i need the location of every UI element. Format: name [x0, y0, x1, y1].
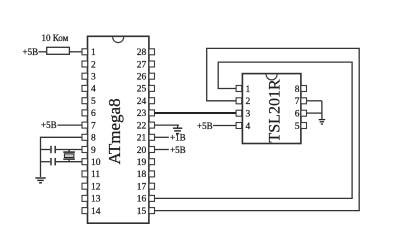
U1 pin 28	[137, 48, 155, 58]
U2 pin 3	[236, 110, 250, 120]
svg-text:28: 28	[137, 48, 147, 58]
wire outer loop bottom to U1 pin 15	[155, 210, 360, 212]
svg-text:2: 2	[91, 60, 96, 70]
U2 pin 4	[236, 122, 250, 132]
wire U1 pin 21 to +1V	[155, 136, 169, 138]
U1 pin 17	[137, 183, 155, 193]
wire U1 pin 9 row	[41, 149, 51, 151]
ground	[319, 120, 326, 124]
U1 pin 1	[82, 48, 96, 58]
wire U1 pin 8 to ground bus	[41, 136, 83, 138]
svg-text:14: 14	[91, 207, 101, 217]
U1 pin 7	[82, 121, 96, 131]
IC U1 ATmega8 body	[88, 36, 149, 223]
wire +5V to U1 pin 7	[58, 124, 83, 126]
wire inner loop bottom to U1 pin 16	[155, 197, 353, 199]
wire ground bus vertical	[40, 137, 42, 177]
wire U2 pin 1 stub	[218, 88, 236, 90]
U1 pin 21	[137, 134, 155, 144]
U2 pin 8	[295, 85, 307, 95]
resistor R1	[47, 47, 70, 54]
U1 pin 11	[82, 170, 100, 180]
U1 pin 20	[137, 146, 155, 156]
U1 pin 23	[137, 109, 155, 119]
ground	[35, 178, 45, 183]
U2 pin 7	[295, 97, 307, 107]
svg-text:24: 24	[137, 97, 147, 107]
svg-text:3: 3	[91, 73, 96, 83]
svg-text:3: 3	[246, 110, 251, 120]
svg-text:19: 19	[137, 158, 147, 168]
svg-text:5: 5	[91, 97, 96, 107]
svg-text:22: 22	[137, 121, 147, 131]
svg-text:11: 11	[91, 170, 100, 180]
svg-text:4: 4	[246, 122, 251, 132]
U1 pin 10	[82, 158, 101, 168]
U1 pin 13	[82, 195, 101, 205]
capacitor C1	[51, 146, 55, 153]
svg-text:7: 7	[91, 121, 96, 131]
svg-text:1: 1	[246, 85, 251, 95]
svg-text:+5В: +5В	[197, 121, 213, 131]
U1 pin 8	[82, 134, 96, 144]
wire U2 pin 7 to ground	[307, 100, 322, 102]
U2 pin 5	[295, 122, 307, 132]
svg-text:6: 6	[91, 109, 96, 119]
svg-text:25: 25	[137, 85, 147, 95]
U1 pin 26	[137, 73, 155, 83]
svg-text:+5В: +5В	[170, 145, 186, 155]
U1 pin 15	[137, 207, 155, 217]
wire inner loop vertical right	[351, 62, 353, 198]
svg-text:1: 1	[91, 48, 96, 58]
svg-text:2: 2	[246, 97, 251, 107]
wire inner loop top	[218, 61, 353, 63]
U1 pin 25	[137, 85, 155, 95]
svg-text:6: 6	[295, 110, 300, 120]
svg-text:27: 27	[137, 60, 147, 70]
svg-text:16: 16	[137, 195, 147, 205]
svg-text:20: 20	[137, 146, 147, 156]
svg-text:ATmega8: ATmega8	[105, 98, 124, 164]
svg-text:+5В: +5В	[41, 120, 57, 130]
U1 pin 9	[82, 146, 96, 156]
U1 pin 2	[82, 60, 96, 70]
svg-text:18: 18	[137, 170, 147, 180]
ground	[173, 128, 182, 133]
U2 pin 6	[295, 110, 307, 120]
svg-text:13: 13	[91, 195, 101, 205]
svg-text:23: 23	[137, 109, 147, 119]
svg-text:17: 17	[137, 183, 147, 193]
capacitor C2	[51, 158, 55, 165]
wire U2 pin 6 to ground	[307, 112, 322, 114]
U1 pin 3	[82, 73, 96, 83]
wire U1 pin 23 to U2 pin 3 (thick)	[155, 112, 237, 114]
wire outer loop top	[206, 47, 360, 49]
U2 pin 2	[236, 97, 250, 107]
svg-text:12: 12	[91, 183, 101, 193]
svg-text:8: 8	[295, 85, 300, 95]
wire +5V to resistor R1	[39, 51, 47, 53]
svg-text:10: 10	[91, 158, 101, 168]
U1 pin 18	[137, 170, 155, 180]
svg-text:+1В: +1В	[170, 133, 186, 143]
svg-text:7: 7	[295, 97, 300, 107]
wire +5V to U2 pin 4	[213, 125, 236, 127]
svg-text:21: 21	[137, 134, 147, 144]
U1 pin 14	[82, 207, 101, 217]
U1 pin 5	[82, 97, 96, 107]
svg-text:4: 4	[91, 85, 96, 95]
wire outer loop vertical left	[206, 48, 208, 101]
wire U1 pin 10 row	[41, 161, 51, 163]
U1 pin 24	[137, 97, 155, 107]
svg-text:15: 15	[137, 207, 147, 217]
wire outer loop vertical right	[358, 48, 360, 210]
svg-text:26: 26	[137, 73, 147, 83]
U1 pin 22	[137, 121, 155, 131]
U1 pin 27	[137, 60, 155, 70]
wire ground vertical at U2	[321, 101, 323, 119]
svg-text:9: 9	[91, 146, 96, 156]
U1 pin 6	[82, 109, 96, 119]
crystal X1	[63, 150, 75, 162]
wire U1 pin 20 to +5V	[155, 149, 169, 151]
IC U2 TSL201R body	[242, 74, 301, 144]
svg-text:+5В: +5В	[23, 47, 39, 57]
svg-text:10 Ком: 10 Ком	[42, 33, 69, 43]
wire U1 pin 22 to ground	[155, 124, 180, 126]
svg-text:TSL201R: TSL201R	[267, 79, 284, 142]
svg-text:8: 8	[91, 134, 96, 144]
wire R1 to U1 pin 1	[69, 51, 82, 53]
U1 pin 16	[137, 195, 155, 205]
U2 pin 1	[236, 85, 250, 95]
U1 pin 4	[82, 85, 96, 95]
svg-text:5: 5	[295, 122, 300, 132]
U1 pin 19	[137, 158, 155, 168]
wire U2 pin 2 stub	[207, 100, 236, 102]
wire inner loop vertical left	[217, 62, 219, 89]
U1 pin 12	[82, 183, 101, 193]
